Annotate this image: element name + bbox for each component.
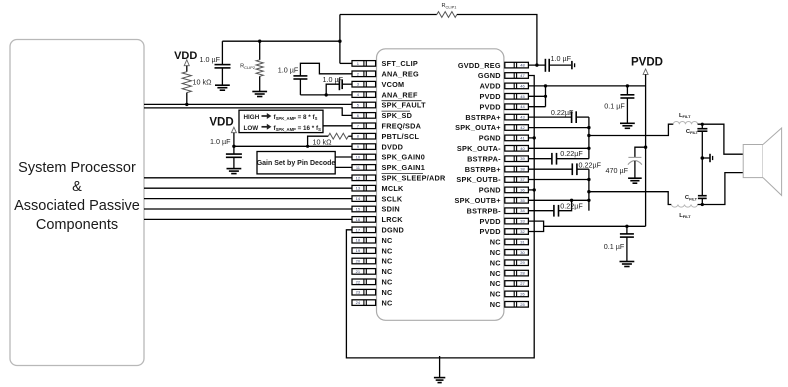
- node junction ANA net: [325, 93, 328, 96]
- svg-text:46: 46: [520, 83, 525, 88]
- svg-text:NC: NC: [490, 248, 502, 257]
- pin 45 PVDD (right): [480, 92, 529, 101]
- svg-text:45: 45: [520, 94, 525, 99]
- pin 23 NC (left): [352, 288, 393, 297]
- node junction 10k tap: [306, 145, 309, 148]
- node junction at SFT_CLIP vertical: [338, 40, 341, 43]
- svg-text:37: 37: [520, 177, 525, 182]
- ground main: [434, 356, 445, 383]
- svg-text:NC: NC: [382, 246, 394, 255]
- wire SPK_FAULT from processor: [144, 103, 352, 105]
- PVDD supply symbol: [631, 56, 663, 74]
- svg-text:31: 31: [520, 239, 525, 244]
- svg-text:PVDD: PVDD: [480, 92, 501, 101]
- wire pin1 stub: [340, 62, 352, 64]
- wire PVDD pin44 stub: [528, 106, 545, 108]
- svg-text:41: 41: [520, 135, 525, 140]
- wire PVDD bottom feed: [544, 225, 646, 227]
- svg-text:PGND: PGND: [479, 186, 501, 195]
- wire SPK_OUTB+: [528, 199, 589, 201]
- svg-text:1.0 µF: 1.0 µF: [199, 55, 220, 64]
- system processor block: [10, 40, 144, 366]
- wire SPK_SLEEP/ADR from processor: [144, 177, 352, 179]
- svg-text:16: 16: [356, 217, 361, 222]
- svg-text:29: 29: [520, 260, 525, 265]
- pin 28 NC (right): [490, 269, 529, 278]
- wire PVDD bus horizontal: [546, 85, 646, 87]
- node junction CFILT top: [701, 123, 704, 126]
- pin 31 NC (right): [490, 238, 529, 247]
- wire PBTL tie A vertical: [587, 117, 590, 159]
- pin 21 NC (left): [352, 267, 393, 276]
- svg-text:LFILT: LFILT: [679, 213, 691, 219]
- inductor LFILT bottom: [671, 205, 697, 220]
- svg-text:33: 33: [520, 219, 525, 224]
- capacitor 0.22uF BSTRPB-: [528, 199, 583, 217]
- svg-text:LFILT: LFILT: [679, 113, 691, 119]
- pin 20 NC (left): [352, 257, 393, 266]
- pin 1 SFT_CLIP (left): [352, 59, 418, 68]
- svg-text:25: 25: [520, 302, 525, 307]
- svg-text:BSTRPB-: BSTRPB-: [467, 206, 501, 215]
- svg-text:NC: NC: [490, 258, 502, 267]
- svg-text:System Processor: System Processor: [18, 160, 136, 176]
- wire PVDD pins 33/32 bracket: [528, 221, 543, 231]
- svg-text:MCLK: MCLK: [382, 184, 405, 193]
- svg-text:SPK_GAIN1: SPK_GAIN1: [382, 163, 426, 172]
- svg-text:13: 13: [356, 186, 361, 191]
- resistor 10 kOhm pullup: [182, 72, 212, 105]
- capacitor 0.22uF BSTRPA-: [528, 149, 589, 164]
- svg-text:SPK_OUTB+: SPK_OUTB+: [455, 196, 501, 205]
- capacitor 470uF electrolytic: [605, 147, 645, 178]
- svg-text:NC: NC: [382, 267, 394, 276]
- svg-text:NC: NC: [382, 236, 394, 245]
- svg-text:PVDD: PVDD: [631, 56, 663, 68]
- svg-text:NC: NC: [382, 298, 394, 307]
- wire MCLK from processor: [144, 187, 352, 189]
- wire top horizontal to resistor: [340, 14, 437, 16]
- wire ANA_REF: [300, 94, 352, 96]
- pin 16 LRCK (left): [352, 215, 403, 224]
- svg-text:SPK_OUTB-: SPK_OUTB-: [456, 175, 501, 184]
- wire SPK_GAIN1: [335, 166, 352, 168]
- svg-text:18: 18: [356, 238, 361, 243]
- node junction GVDD_REG: [528, 63, 545, 66]
- svg-text:27: 27: [520, 281, 525, 286]
- pin 10 SPK_GAIN0 (left): [352, 153, 425, 162]
- svg-text:LRCK: LRCK: [382, 215, 404, 224]
- wire SPK_OUTA+: [528, 127, 589, 129]
- pin 4 ANA_REF (left): [352, 90, 418, 99]
- capacitor 1.0uF VCOM: [323, 75, 353, 95]
- svg-text:BSTRPB+: BSTRPB+: [465, 165, 501, 174]
- pin 33 PVDD (right): [480, 217, 529, 226]
- svg-text:FREQ/SDA: FREQ/SDA: [382, 122, 422, 131]
- svg-text:1.0 µF: 1.0 µF: [278, 66, 299, 75]
- pin 17 DGND (left): [352, 226, 404, 235]
- inductor LFILT top: [673, 113, 697, 124]
- svg-text:0.22µF: 0.22µF: [560, 201, 583, 210]
- svg-text:1.0 µF: 1.0 µF: [323, 75, 344, 84]
- svg-text:30: 30: [520, 250, 525, 255]
- svg-text:GGND: GGND: [478, 71, 501, 80]
- svg-text:ANA_REG: ANA_REG: [382, 70, 420, 79]
- node junction CFILT bottom: [701, 203, 704, 206]
- svg-text:0.1 µF: 0.1 µF: [604, 101, 625, 110]
- svg-text:40: 40: [520, 146, 525, 151]
- ground below 0.1uF top: [620, 123, 635, 128]
- wire SPK_OUTA-: [528, 147, 589, 149]
- pin 40 SPK_OUTA- (right): [457, 144, 528, 153]
- svg-text:22: 22: [356, 279, 361, 284]
- svg-text:LOW: LOW: [244, 125, 259, 132]
- svg-text:12: 12: [356, 175, 361, 180]
- svg-text:35: 35: [520, 198, 525, 203]
- svg-text:Gain Set by Pin Decode: Gain Set by Pin Decode: [257, 160, 336, 167]
- svg-text:10 kΩ: 10 kΩ: [313, 137, 333, 146]
- svg-text:NC: NC: [382, 278, 394, 287]
- pin 12 SPK_SLEEP/ADR (left): [352, 174, 446, 183]
- wire SPK_SD from processor: [144, 108, 352, 116]
- node junction 0.1uF tap top: [626, 84, 629, 87]
- svg-text:0.22µF: 0.22µF: [579, 160, 602, 169]
- pin 15 SDIN (left): [352, 205, 400, 214]
- wire SFT_CLIP node horizontal: [222, 40, 340, 42]
- svg-text:DVDD: DVDD: [382, 142, 404, 151]
- ground below 470uF: [628, 178, 642, 183]
- svg-text:RCLIP1: RCLIP1: [442, 3, 457, 9]
- svg-text:PGND: PGND: [479, 134, 501, 143]
- pin 36 PGND (right): [479, 186, 529, 195]
- wire SPK_OUTB-: [528, 179, 589, 181]
- capacitor CFILT top: [686, 124, 708, 158]
- svg-text:CFILT: CFILT: [685, 195, 698, 201]
- wire SCLK from processor: [144, 198, 352, 200]
- capacitor 0.22uF BSTRPB+: [528, 160, 601, 175]
- pin 8 PBTL/SCL (left): [352, 132, 419, 141]
- svg-text:1.0 µF: 1.0 µF: [551, 54, 572, 63]
- capacitor 1.0uF ANA_REG: [278, 63, 352, 95]
- wire PVDD vertical rail: [645, 74, 647, 226]
- svg-text:0.22µF: 0.22µF: [560, 149, 583, 158]
- pin 27 NC (right): [490, 279, 529, 288]
- pin 3 VCOM (left): [352, 80, 404, 89]
- pin 48 GVDD_REG (right): [458, 61, 529, 70]
- pin 7 FREQ/SDA (left): [352, 122, 422, 131]
- svg-text:10 kΩ: 10 kΩ: [193, 78, 213, 87]
- svg-text:SCLK: SCLK: [382, 194, 403, 203]
- svg-text:SFT_CLIP: SFT_CLIP: [382, 59, 418, 68]
- ground below 1.0uF cap: [215, 85, 230, 90]
- ground below DVDD cap: [227, 169, 242, 174]
- wire PBTL tie B vertical: [587, 169, 590, 211]
- pin 37 SPK_OUTB- (right): [456, 175, 528, 184]
- svg-text:SPK_FAULT: SPK_FAULT: [382, 101, 427, 110]
- wire SDIN from processor: [144, 208, 352, 210]
- wire top horizontal to GVDD_REG: [457, 15, 537, 66]
- svg-text:BSTRPA+: BSTRPA+: [465, 113, 500, 122]
- capacitor 0.1uF top: [604, 86, 634, 123]
- wire AVDD stub: [528, 85, 545, 87]
- svg-text:NC: NC: [490, 238, 502, 247]
- svg-text:PVDD: PVDD: [480, 102, 501, 111]
- svg-text:NC: NC: [490, 290, 502, 299]
- svg-text:CFILT: CFILT: [686, 129, 699, 135]
- wire PVDD bus vertical tie: [544, 84, 547, 106]
- pin 18 NC (left): [352, 236, 393, 245]
- resistor RCLIP1: [437, 3, 457, 17]
- svg-text:SPK_OUTA-: SPK_OUTA-: [457, 144, 501, 153]
- pin 29 NC (right): [490, 258, 529, 267]
- pin 46 AVDD (right): [480, 82, 529, 91]
- svg-text:42: 42: [520, 125, 525, 130]
- VDD supply symbol (DVDD): [209, 117, 236, 147]
- capacitor 1.0uF GVDD_REG: [545, 54, 571, 72]
- svg-text:HIGH: HIGH: [244, 114, 260, 121]
- svg-text:36: 36: [520, 187, 525, 192]
- wire output A to filter: [589, 124, 673, 135]
- pin 30 NC (right): [490, 248, 529, 257]
- pin 26 NC (right): [490, 290, 529, 299]
- svg-text:Components: Components: [36, 217, 118, 233]
- svg-text:NC: NC: [490, 279, 502, 288]
- svg-text:15: 15: [356, 207, 361, 212]
- svg-text:RCLIP2: RCLIP2: [240, 64, 255, 70]
- svg-text:34: 34: [520, 208, 525, 213]
- pin 24 NC (left): [352, 298, 393, 307]
- svg-text:BSTRPA-: BSTRPA-: [467, 154, 501, 163]
- svg-text:43: 43: [520, 115, 525, 120]
- svg-text:0.22µF: 0.22µF: [551, 108, 574, 117]
- svg-text:10: 10: [356, 155, 361, 160]
- svg-text:32: 32: [520, 229, 525, 234]
- pin 19 NC (left): [352, 246, 393, 255]
- svg-text:23: 23: [356, 290, 361, 295]
- svg-text:20: 20: [356, 259, 361, 264]
- wire output B to filter: [589, 192, 672, 205]
- svg-text:NC: NC: [382, 257, 394, 266]
- wire FREQ/SDA: [323, 125, 352, 127]
- svg-text:39: 39: [520, 156, 525, 161]
- svg-text:DGND: DGND: [382, 226, 405, 235]
- svg-text:14: 14: [356, 196, 361, 201]
- svg-text:SPK_GAIN0: SPK_GAIN0: [382, 153, 426, 162]
- svg-text:38: 38: [520, 167, 525, 172]
- op-amp / amplifier IC U1 body: [377, 49, 504, 321]
- svg-text:PBTL/SCL: PBTL/SCL: [382, 132, 420, 141]
- svg-text:28: 28: [520, 271, 525, 276]
- svg-text:SPK_OUTA+: SPK_OUTA+: [455, 123, 501, 132]
- pin 41 PGND (right): [479, 134, 529, 143]
- svg-text:Associated Passive: Associated Passive: [14, 198, 140, 214]
- pin 5 SPK_FAULT (left): [352, 101, 426, 110]
- pin 47 GGND (right): [478, 71, 529, 80]
- svg-text:PVDD: PVDD: [480, 227, 501, 236]
- node junction DVDD: [232, 145, 235, 148]
- svg-text:24: 24: [356, 300, 361, 305]
- svg-text:AVDD: AVDD: [480, 82, 501, 91]
- pin 39 BSTRPA- (right): [467, 154, 528, 163]
- node junction 0.1uF tap bottom: [625, 225, 628, 228]
- pin 14 SCLK (left): [352, 194, 403, 203]
- wire PGND pin36 stub: [528, 188, 536, 191]
- pin 22 NC (left): [352, 278, 393, 287]
- wire filter A to speaker: [698, 124, 744, 154]
- pin 25 NC (right): [490, 300, 529, 309]
- svg-text:NC: NC: [490, 300, 502, 309]
- pin 35 SPK_OUTB+ (right): [455, 196, 529, 205]
- svg-text:0.1 µF: 0.1 µF: [604, 242, 625, 251]
- capacitor 1.0uF at DVDD: [210, 137, 242, 169]
- svg-text:44: 44: [520, 104, 525, 109]
- svg-text:GVDD_REG: GVDD_REG: [458, 61, 501, 70]
- pin 43 BSTRPA+ (right): [465, 113, 528, 122]
- pin 6 SPK_SD (left): [352, 111, 412, 120]
- svg-text:VDD: VDD: [174, 50, 197, 62]
- capacitor 0.22uF BSTRPA+: [528, 108, 589, 123]
- svg-text:&: &: [72, 179, 82, 195]
- svg-text:SPK_SLEEP/ADR: SPK_SLEEP/ADR: [382, 174, 447, 183]
- resistor 10 kOhm PBTL/SCL: [308, 133, 352, 146]
- svg-text:SPK_SD: SPK_SD: [382, 111, 413, 120]
- wire filter B to speaker: [698, 173, 744, 205]
- svg-text:17: 17: [356, 227, 361, 232]
- pin 11 SPK_GAIN1 (left): [352, 163, 425, 172]
- pin 32 PVDD (right): [480, 227, 529, 236]
- pin 38 BSTRPB+ (right): [465, 165, 529, 174]
- svg-text:1.0 µF: 1.0 µF: [210, 137, 231, 146]
- capacitor 1.0uF at SFT_CLIP: [199, 41, 230, 85]
- svg-text:PVDD: PVDD: [480, 217, 501, 226]
- speaker: [743, 128, 781, 195]
- svg-text:NC: NC: [382, 288, 394, 297]
- pin 44 PVDD (right): [480, 102, 529, 111]
- node junction filter midpoint: [701, 156, 705, 160]
- wire DGND to ground loop: [346, 76, 534, 358]
- pin 9 DVDD (left): [352, 142, 403, 151]
- svg-text:ANA_REF: ANA_REF: [382, 90, 419, 99]
- wire LRCK from processor: [144, 218, 352, 220]
- svg-text:47: 47: [520, 73, 525, 78]
- node junction 470uF tap: [644, 146, 647, 149]
- svg-text:470 µF: 470 µF: [605, 166, 628, 175]
- pin 34 BSTRPB- (right): [467, 206, 529, 215]
- svg-text:VCOM: VCOM: [382, 80, 405, 89]
- annotation box gain set: [257, 152, 336, 174]
- node junction pullup on SPK_FAULT wire: [185, 103, 188, 106]
- wire SPK_GAIN0: [335, 156, 352, 158]
- capacitor 0.1uF bottom: [604, 226, 634, 261]
- pin 2 ANA_REG (left): [352, 70, 419, 79]
- svg-text:26: 26: [520, 291, 525, 296]
- svg-text:48: 48: [520, 63, 525, 68]
- capacitor CFILT bottom: [685, 158, 707, 205]
- svg-text:NC: NC: [490, 269, 502, 278]
- wire SFT_CLIP node vertical left: [339, 15, 341, 64]
- annotation box sample-rate options: [239, 110, 323, 132]
- ground below RCLIP2: [252, 92, 267, 97]
- svg-text:VDD: VDD: [209, 117, 233, 129]
- svg-text:19: 19: [356, 248, 361, 253]
- ground sideways filter midpoint: [702, 154, 712, 162]
- resistor RCLIP2: [240, 40, 263, 92]
- svg-text:21: 21: [356, 269, 361, 274]
- pin 13 MCLK (left): [352, 184, 404, 193]
- wire DVDD: [234, 145, 352, 147]
- wire PVDD pin45 stub: [528, 95, 545, 97]
- ground below 0.1uF bottom: [620, 262, 635, 267]
- wire PGND pin41 stub: [528, 136, 536, 139]
- svg-text:SDIN: SDIN: [382, 205, 400, 214]
- VDD supply symbol (pullup): [174, 50, 197, 71]
- pin 42 SPK_OUTA+ (right): [455, 123, 528, 132]
- ground sideways GVDD_REG: [572, 61, 575, 69]
